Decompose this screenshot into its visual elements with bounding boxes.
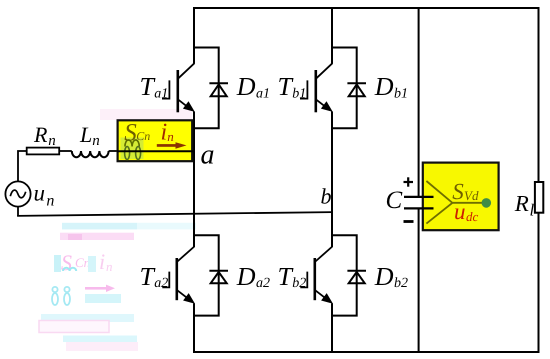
svg-text:dc: dc (466, 209, 479, 224)
wire: sloped return wire to node b (17, 212, 332, 216)
wire: source bottom (17, 207, 19, 216)
diode D_b1 (347, 83, 366, 96)
svg-text:a2: a2 (154, 276, 168, 291)
svg-text:b1: b1 (292, 86, 306, 101)
svg-text:S: S (61, 250, 72, 275)
svg-text:R: R (33, 122, 48, 147)
wire: D_a2 branch (194, 235, 219, 315)
wire: inductor to sensor box (109, 150, 118, 152)
green highlight in sensor box (121, 138, 144, 160)
svg-text:T: T (278, 262, 294, 291)
minus sign (404, 220, 414, 223)
svg-text:u: u (34, 181, 46, 206)
ghost artifact: cyan band low (63, 336, 137, 343)
ghost artifact: cyan band under arrow (85, 294, 121, 303)
svg-text:n: n (106, 259, 113, 274)
AC source u_n (5, 181, 30, 206)
current sensor box S_Cn (118, 120, 193, 161)
wire: D_a1 branch (194, 48, 219, 129)
svg-text:n: n (46, 192, 54, 209)
wire: leg a middle (node a region) (193, 112, 195, 248)
wire: source top to resistor (18, 151, 27, 181)
svg-text:R: R (514, 191, 529, 216)
inductor L_n (72, 151, 109, 157)
wire: leg a upper (collector T_a1) (193, 7, 195, 64)
svg-text:D: D (374, 262, 394, 291)
current direction arrow i_n (157, 142, 187, 149)
svg-text:b2: b2 (394, 276, 408, 291)
svg-text:Vd: Vd (464, 188, 479, 203)
resistor R_n (27, 148, 60, 155)
svg-text:b: b (321, 184, 332, 209)
wire: top DC rail (193, 7, 540, 9)
ghost artifact: cyan m under ghost S (63, 268, 76, 271)
wire: leg b lower (emitter T_b2 to rail) (331, 303, 333, 353)
svg-text:n: n (167, 129, 174, 144)
svg-text:a2: a2 (256, 276, 270, 291)
wire: bottom DC rail (193, 351, 540, 353)
diode D_a1 (209, 83, 228, 96)
svg-text:L: L (79, 122, 92, 147)
capacitor C plates (404, 196, 434, 198)
ghost artifact: cyan loops (52, 287, 70, 305)
ghost artifact: pink i_n text (99, 249, 113, 274)
svg-text:l: l (530, 200, 535, 219)
ghost artifact: cyan patches around ghost text (54, 255, 61, 272)
svg-text:b1: b1 (394, 86, 408, 101)
svg-text:C: C (386, 187, 403, 214)
svg-text:T: T (140, 72, 156, 101)
sensor wedge lines (426, 181, 482, 224)
wire: leg a lower (emitter T_a2 to rail) (193, 303, 195, 353)
wire: capacitor rail lower (418, 209, 420, 354)
svg-text:a1: a1 (256, 86, 270, 101)
svg-text:D: D (374, 72, 394, 101)
svg-text:i: i (99, 249, 105, 274)
CT coil m-arcs (125, 140, 139, 147)
ghost artifact: pink halo above sensor box (100, 109, 192, 120)
load resistor R_l (535, 182, 543, 213)
svg-text:Cn: Cn (75, 255, 90, 270)
wire: capacitor rail upper (418, 7, 420, 197)
wire: load rail right (538, 7, 540, 353)
wire: through sensor box to node a (117, 150, 194, 152)
transistor T_a1 (IGBT) (162, 63, 195, 112)
ghost artifact: pink streak (60, 233, 134, 240)
svg-text:b2: b2 (292, 276, 306, 291)
wire: leg b upper (collector T_b1) (331, 7, 333, 64)
ghost artifact: pink arrow (85, 285, 115, 292)
svg-text:T: T (278, 72, 294, 101)
svg-text:a1: a1 (154, 86, 168, 101)
ghost artifact: cyan streak (41, 314, 134, 322)
green dot (482, 198, 492, 208)
svg-text:D: D (236, 72, 256, 101)
voltage sensor box S_Vd (423, 163, 499, 231)
ghost artifact: pink box streak (39, 321, 109, 333)
wire: resistor to inductor (59, 150, 72, 152)
svg-text:n: n (48, 133, 56, 149)
wire: D_b1 branch (332, 48, 357, 129)
svg-text:n: n (92, 133, 100, 149)
svg-text:T: T (140, 262, 156, 291)
ghost artifact: pink S_Cn text (61, 250, 90, 275)
wire: D_b2 branch (332, 235, 357, 315)
transistor T_b1 (IGBT) (300, 63, 333, 112)
diode D_b2 (347, 271, 366, 283)
plus sign (404, 177, 414, 186)
wire: leg b middle (node b region) (331, 112, 333, 248)
CT coil loops (125, 147, 130, 160)
svg-text:D: D (236, 262, 256, 291)
transistor T_b2 (IGBT) (300, 247, 333, 304)
ghost artifact: cyan streak top (62, 223, 137, 230)
svg-text:u: u (454, 199, 466, 224)
ghost artifact: pink band low (66, 342, 138, 351)
transistor T_a2 (IGBT) (162, 247, 195, 304)
svg-text:i: i (161, 120, 168, 146)
diode D_a2 (209, 271, 228, 283)
svg-text:a: a (201, 140, 215, 171)
